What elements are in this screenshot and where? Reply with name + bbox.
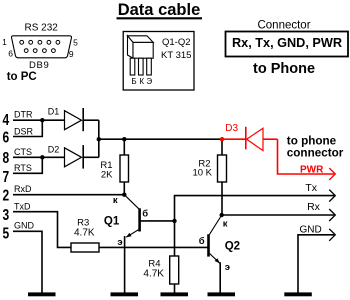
svg-text:8: 8 bbox=[3, 148, 10, 166]
Q2 emitter arrowhead bbox=[215, 258, 220, 263]
svg-text:к: к bbox=[113, 195, 118, 206]
svg-text:Rx: Rx bbox=[307, 201, 321, 213]
svg-text:10 K: 10 K bbox=[192, 168, 212, 179]
svg-text:6: 6 bbox=[8, 48, 13, 58]
arrow PWR (red) bbox=[329, 168, 335, 180]
transistor Q2 bbox=[209, 215, 222, 263]
svg-text:Q1-Q2: Q1-Q2 bbox=[162, 37, 191, 48]
junction R2 / Q2 collector / Rx bbox=[220, 213, 224, 217]
wire R4 bottom bbox=[174, 284, 176, 293]
wire VCC rail bbox=[99, 138, 222, 140]
resistor R1 bbox=[120, 155, 129, 182]
svg-text:К: К bbox=[139, 77, 144, 86]
resistor R4 bbox=[170, 256, 179, 284]
junction DTR/DSR bbox=[40, 118, 44, 122]
junction Q1 base / R4 bbox=[172, 219, 176, 223]
svg-text:6: 6 bbox=[3, 128, 10, 146]
svg-text:GND: GND bbox=[14, 221, 35, 231]
junction RxD / R1 / Q1 collector bbox=[122, 193, 126, 197]
svg-text:4.7K: 4.7K bbox=[74, 228, 95, 239]
svg-text:Data cable: Data cable bbox=[118, 1, 201, 19]
ground bar 1 bbox=[28, 292, 56, 296]
DB9 holes row 2 bbox=[24, 49, 55, 53]
svg-text:KT 315: KT 315 bbox=[161, 50, 191, 61]
svg-text:2K: 2K bbox=[101, 170, 113, 181]
svg-text:4: 4 bbox=[3, 110, 10, 128]
transistor Q1 bbox=[124, 195, 174, 238]
svg-text:Э: Э bbox=[146, 77, 152, 86]
svg-text:э: э bbox=[225, 262, 230, 273]
svg-text:5: 5 bbox=[3, 224, 10, 242]
svg-text:D3: D3 bbox=[225, 123, 238, 134]
svg-text:2: 2 bbox=[3, 186, 10, 204]
diode D3 (red) bbox=[222, 127, 278, 151]
svg-text:PWR: PWR bbox=[300, 164, 324, 175]
svg-text:RxD: RxD bbox=[14, 184, 32, 194]
junction CTS/RTS bbox=[40, 155, 44, 159]
wire R3 to Q2 base bbox=[99, 246, 208, 248]
wire R2 bottom bbox=[221, 182, 223, 215]
wire GND pin bbox=[13, 231, 42, 293]
svg-text:4.7K: 4.7K bbox=[143, 269, 164, 280]
Q1 emitter arrowhead bbox=[126, 233, 132, 238]
resistor R2 bbox=[218, 155, 227, 182]
diode D2 bbox=[65, 145, 99, 169]
svg-text:DB9: DB9 bbox=[29, 60, 49, 71]
junction diode outputs bbox=[97, 137, 101, 141]
wire R4 top bbox=[174, 221, 176, 256]
svg-text:Б: Б bbox=[131, 77, 136, 86]
ground bar 5 bbox=[284, 292, 312, 296]
wire CTS bbox=[13, 156, 65, 158]
arrow GND right bbox=[329, 229, 335, 241]
svg-text:3: 3 bbox=[3, 205, 10, 223]
resistor R3 bbox=[71, 243, 99, 252]
wire Q2 emitter to ground bbox=[219, 262, 221, 293]
wire Rx net bbox=[222, 214, 334, 216]
diode D1 bbox=[65, 108, 99, 131]
title Data cable bbox=[117, 1, 203, 19]
DB9 holes row 1 bbox=[20, 40, 60, 44]
wire Q1 emitter to ground bbox=[124, 236, 126, 293]
wire Tx net corner bbox=[175, 196, 335, 221]
svg-text:б: б bbox=[199, 236, 205, 247]
svg-text:RTS: RTS bbox=[14, 163, 32, 173]
svg-text:D2: D2 bbox=[48, 145, 60, 155]
wire R1 bottom bbox=[123, 182, 125, 195]
svg-text:CTS: CTS bbox=[14, 147, 32, 157]
svg-text:Q1: Q1 bbox=[104, 216, 120, 228]
svg-text:TxD: TxD bbox=[14, 201, 31, 211]
ground bar 4 bbox=[208, 292, 236, 296]
svg-text:Q2: Q2 bbox=[225, 240, 240, 252]
ground bar 3 bbox=[161, 292, 189, 296]
svg-text:э: э bbox=[117, 237, 122, 248]
wire R2 top bbox=[221, 139, 223, 155]
ground bar 2 bbox=[111, 292, 139, 296]
svg-text:GND: GND bbox=[300, 224, 322, 235]
svg-text:DTR: DTR bbox=[14, 109, 33, 119]
svg-text:DSR: DSR bbox=[14, 127, 34, 137]
svg-text:RS 232: RS 232 bbox=[25, 23, 59, 34]
transistor package KT315 bbox=[128, 36, 154, 75]
svg-text:to Phone: to Phone bbox=[253, 61, 315, 77]
wire PWR (red) bbox=[278, 139, 335, 174]
svg-text:9: 9 bbox=[69, 49, 74, 59]
svg-text:7: 7 bbox=[3, 167, 10, 185]
svg-text:к: к bbox=[223, 218, 228, 229]
wire diode outputs vertical bbox=[98, 120, 100, 157]
wire RTS bbox=[13, 157, 42, 173]
connector signals box bbox=[226, 32, 349, 57]
svg-text:Tx: Tx bbox=[305, 182, 317, 194]
wire R1 top bbox=[123, 139, 125, 155]
wire TxD bbox=[13, 212, 71, 248]
svg-text:Rx, Tx, GND, PWR: Rx, Tx, GND, PWR bbox=[232, 36, 342, 50]
junction VCC / D3 (red) bbox=[220, 137, 224, 141]
svg-text:D1: D1 bbox=[48, 107, 60, 117]
junction R1 top bbox=[122, 137, 126, 141]
arrow Rx bbox=[329, 209, 335, 221]
transistor info box bbox=[123, 32, 194, 91]
svg-text:connector: connector bbox=[287, 146, 344, 159]
svg-text:1: 1 bbox=[2, 37, 7, 47]
wire RxD bbox=[13, 194, 124, 196]
arrow Tx bbox=[329, 190, 335, 202]
connector DB9 body bbox=[11, 36, 71, 58]
wire GND right bbox=[298, 235, 334, 293]
wire DTR bbox=[13, 119, 65, 121]
wire DSR bbox=[13, 120, 42, 136]
svg-text:б: б bbox=[142, 209, 148, 220]
svg-text:Connector: Connector bbox=[257, 20, 310, 32]
svg-text:5: 5 bbox=[73, 38, 78, 48]
svg-text:to PC: to PC bbox=[7, 71, 37, 83]
